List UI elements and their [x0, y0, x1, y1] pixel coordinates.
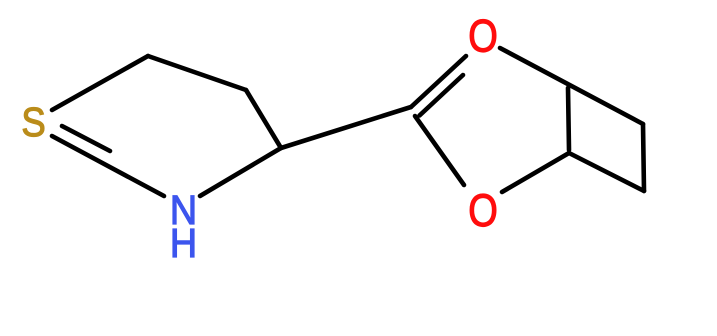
bond N-V	[200, 148, 281, 196]
bond C7-O1	[411, 56, 466, 107]
svg-text:O: O	[468, 185, 498, 236]
bond B-V	[246, 90, 281, 148]
svg-text:H: H	[170, 221, 197, 267]
bond Ca-Cb vertical	[568, 88, 569, 150]
svg-text:S: S	[21, 100, 45, 145]
bond S-A (C6)	[52, 56, 148, 110]
bond V-C7 (to ketal carbon)	[281, 107, 411, 148]
bond P1-P2 vertical	[643, 124, 644, 191]
bond O1-Ca-P1	[500, 48, 643, 124]
bond S=C2 + C2-N collinear main line	[52, 136, 164, 196]
bond C7-O2	[415, 116, 464, 185]
bond C7-O1 mate	[420, 75, 464, 116]
bond A-B	[148, 56, 246, 90]
bond S=C2 double mate	[62, 126, 110, 151]
bond P2-Cb	[569, 153, 644, 191]
wire: bond S=C2 main line continuing to N	[52, 48, 644, 196]
svg-text:O: O	[468, 10, 498, 61]
bond Cb-O2	[502, 153, 569, 192]
